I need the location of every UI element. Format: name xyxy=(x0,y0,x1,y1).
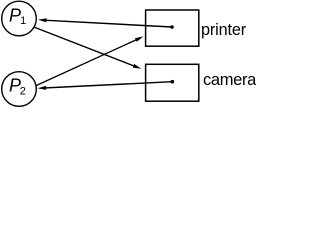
process P2 circle xyxy=(2,72,37,107)
svg-text:camera: camera xyxy=(203,71,256,89)
arrowhead at printer box xyxy=(135,36,144,41)
arrowhead at P2 xyxy=(38,86,47,90)
resource printer box xyxy=(146,10,199,46)
svg-text:1: 1 xyxy=(20,15,26,27)
wire: assignment edge camera dot to P2 xyxy=(46,82,172,88)
wire: request edge P1 to camera xyxy=(34,27,133,65)
wire: assignment edge printer dot to P1 xyxy=(47,20,173,27)
process P1 circle xyxy=(2,1,37,36)
svg-text:2: 2 xyxy=(20,86,26,98)
wire: request edge P2 to printer xyxy=(36,40,136,86)
camera resource dot xyxy=(171,80,175,84)
svg-text:printer: printer xyxy=(201,21,247,39)
arrowhead at P1 xyxy=(38,18,47,22)
printer resource dot xyxy=(170,25,174,29)
arrowhead at camera box xyxy=(133,64,142,69)
resource camera box xyxy=(146,64,199,101)
